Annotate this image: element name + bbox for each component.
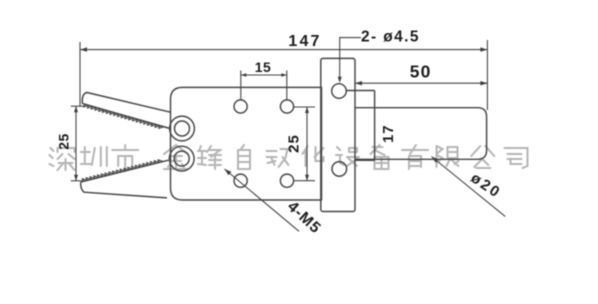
dim 15 line: [241, 74, 287, 76]
leader 2-o4.5: [340, 38, 361, 81]
mounting hole top-right: [280, 100, 293, 113]
cylinder barrel: [355, 108, 487, 160]
lower pivot ring inner: [174, 151, 189, 166]
lower jaw outer edge: [81, 182, 167, 198]
neck step top edge: [347, 90, 375, 92]
dim 15 right extension: [286, 71, 288, 101]
jaw dim top tick: [71, 105, 86, 107]
flange plate: [321, 58, 355, 211]
leader o20: [432, 157, 506, 217]
upper jaw serrated face: [82, 104, 170, 129]
svg-text:2- ø4.5: 2- ø4.5: [361, 29, 420, 46]
leader 4-M5: [225, 169, 300, 231]
upper jaw outer edge: [82, 93, 170, 113]
flange hole top: [332, 84, 347, 99]
dim 147/50 right extension: [486, 40, 488, 110]
svg-text:147: 147: [288, 33, 321, 50]
svg-text:17: 17: [380, 124, 397, 143]
upper jaw teeth: [84, 104, 164, 128]
dim 147 left extension: [79, 42, 81, 106]
mounting hole bottom-right: [280, 174, 293, 187]
dim 50 line: [355, 82, 487, 84]
watermark company name: [50, 145, 528, 171]
svg-text:50: 50: [410, 62, 432, 82]
holes dim top tick: [294, 106, 315, 108]
neck step right edge: [374, 91, 376, 161]
svg-text:4-M5: 4-M5: [284, 198, 324, 237]
svg-text:15: 15: [255, 59, 272, 75]
mounting hole top-left: [234, 100, 247, 113]
holes dim 25 line: [306, 107, 308, 181]
svg-text:25: 25: [286, 134, 303, 153]
lower pivot ring outer: [169, 146, 194, 171]
upper pivot ring inner: [175, 121, 190, 136]
jaw opening dim 25 line: [75, 106, 77, 181]
svg-text:25: 25: [56, 133, 72, 150]
svg-text:ø20: ø20: [468, 169, 505, 202]
gripper body: [171, 87, 322, 200]
dim 15 left extension: [240, 71, 242, 101]
jaw dim bottom tick: [71, 180, 84, 182]
upper pivot ring outer: [170, 116, 195, 141]
lower jaw serrated face: [81, 160, 169, 182]
neck step bottom edge: [355, 159, 375, 161]
holes dim bottom tick: [294, 180, 315, 182]
flange hole bottom: [332, 162, 347, 177]
mounting hole bottom-left: [234, 174, 247, 187]
arrowheads: [80, 47, 87, 51]
lower jaw teeth: [82, 160, 163, 182]
dim 147 line: [80, 49, 487, 51]
